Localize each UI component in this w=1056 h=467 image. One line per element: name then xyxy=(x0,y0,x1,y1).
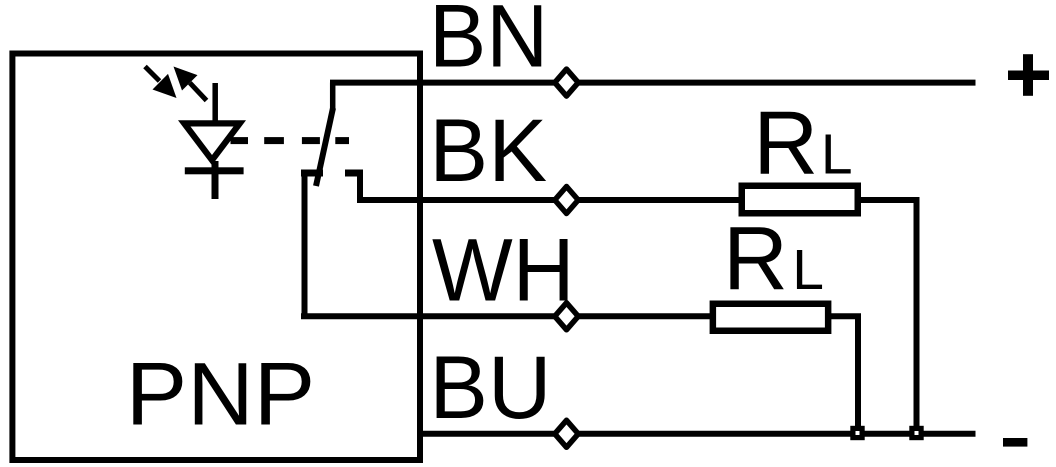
light arrow 2 xyxy=(174,67,207,101)
connector diamond WH xyxy=(555,303,579,330)
switch contact bar left (to WH) xyxy=(301,170,323,177)
svg-text:BK: BK xyxy=(429,100,547,200)
resistor RL1 body xyxy=(742,186,858,214)
resistor RL2 body xyxy=(713,304,828,331)
svg-text:BN: BN xyxy=(429,0,548,86)
svg-text:WH: WH xyxy=(432,220,575,320)
wire BN xyxy=(330,80,976,86)
wire WH xyxy=(301,316,858,434)
minus supply terminal xyxy=(1003,438,1027,447)
svg-text:PNP: PNP xyxy=(126,344,315,444)
diode anode lead xyxy=(212,83,218,126)
svg-text:R: R xyxy=(753,94,818,194)
connector diamond BK xyxy=(555,187,579,214)
sensor body box xyxy=(12,54,420,461)
junction square WH/BU xyxy=(850,426,864,440)
switch contact lead to BK xyxy=(357,172,363,200)
mechanical link dashed line xyxy=(231,137,350,144)
connector diamond BN xyxy=(555,69,579,96)
light arrow 1 xyxy=(145,67,177,99)
switch common terminal wire from BN xyxy=(330,83,336,111)
wire BK xyxy=(357,200,917,434)
svg-text:R: R xyxy=(723,209,788,309)
svg-text:L: L xyxy=(792,238,824,302)
svg-text:L: L xyxy=(821,123,853,187)
diode cathode lead xyxy=(212,161,219,199)
junction square BK/BU xyxy=(909,426,923,440)
wire BU xyxy=(420,431,976,437)
plus supply terminal xyxy=(1008,54,1049,96)
switch lever xyxy=(316,108,333,186)
diode cathode bar xyxy=(185,167,244,174)
connector diamond BU xyxy=(555,420,579,447)
switch contact lead to WH xyxy=(302,172,308,316)
diode triangle xyxy=(178,120,246,165)
svg-text:BU: BU xyxy=(429,337,551,437)
switch contact bar right (to BK) xyxy=(345,170,363,177)
